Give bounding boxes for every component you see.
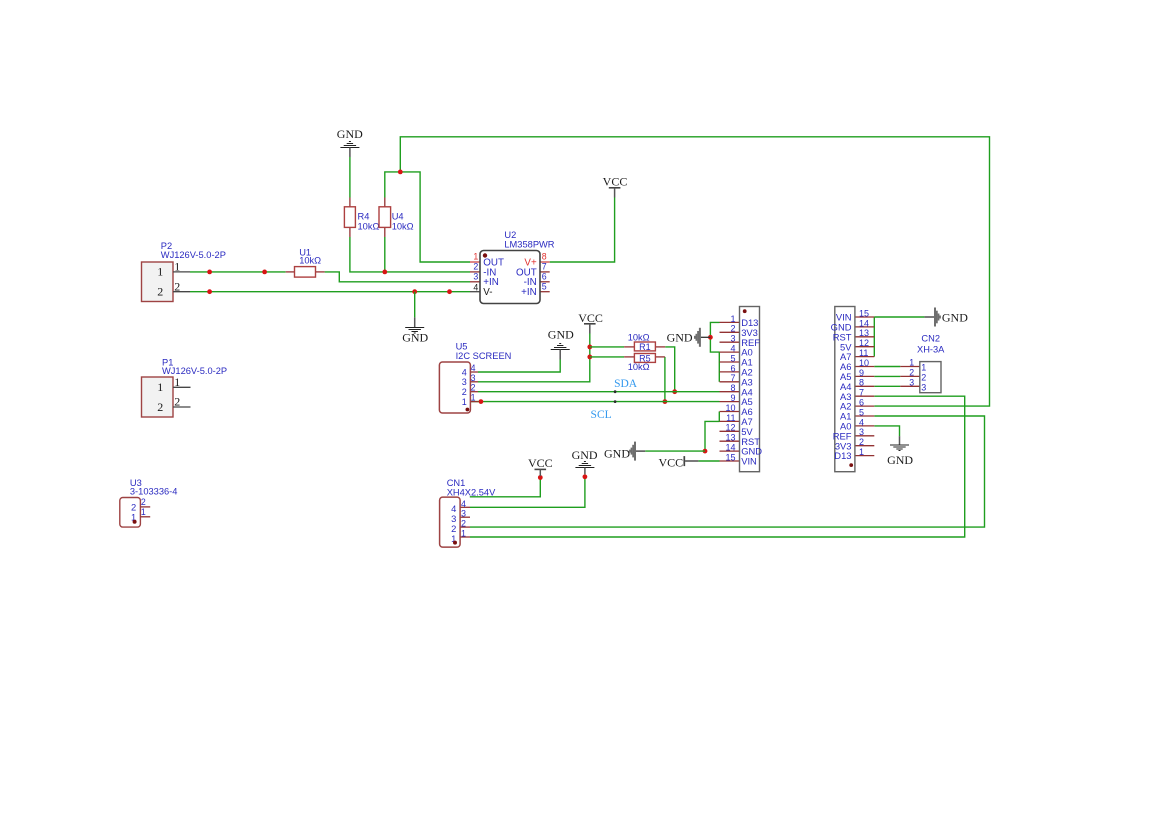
resistor U4 10kΩ [379, 198, 414, 238]
svg-text:1: 1 [471, 393, 476, 403]
svg-text:10kΩ: 10kΩ [628, 362, 650, 372]
ground GND flag (A0 right) [887, 436, 913, 467]
wire GND to R4 top [349, 157, 351, 198]
resistor R5 10kΩ [624, 353, 665, 372]
svg-text:1: 1 [141, 507, 146, 517]
power VCC flag (VIN pin15) [659, 455, 699, 469]
wire A7 to GND row [705, 421, 720, 451]
wire SCL net [465, 401, 720, 403]
ground GND flag (U5 pin4) [548, 328, 574, 360]
connector J-left Arduino header [720, 307, 763, 472]
junction [207, 289, 212, 294]
svg-text:3-103336-4: 3-103336-4 [130, 486, 178, 496]
svg-text:3: 3 [462, 377, 467, 387]
power VCC flag (U5/R1/R5) [578, 311, 603, 334]
svg-text:2: 2 [471, 383, 476, 393]
svg-text:GND: GND [572, 448, 598, 462]
svg-text:2: 2 [157, 285, 163, 299]
node SCL anchor [614, 400, 617, 403]
svg-text:3: 3 [461, 509, 466, 519]
svg-text:SCL: SCL [591, 409, 612, 421]
svg-text:14: 14 [859, 318, 869, 328]
svg-text:VCC: VCC [603, 174, 628, 188]
wire D13 to A0 [710, 322, 719, 352]
junction [587, 355, 592, 360]
svg-text:15: 15 [859, 308, 869, 318]
svg-text:10kΩ: 10kΩ [358, 221, 380, 231]
svg-text:2: 2 [909, 368, 914, 378]
junction [207, 270, 212, 275]
svg-text:3: 3 [471, 373, 476, 383]
svg-text:1: 1 [730, 314, 735, 324]
svg-text:R4: R4 [358, 211, 370, 221]
svg-text:13: 13 [725, 433, 735, 443]
wire to ground [414, 292, 416, 318]
svg-text:CN1: CN1 [447, 478, 466, 488]
ground GND flag (U2 V-) [402, 317, 428, 344]
ground GND flag (CN1 pin4) [572, 448, 598, 474]
svg-text:8: 8 [859, 378, 864, 388]
svg-text:9: 9 [730, 393, 735, 403]
connector U3 [120, 478, 178, 527]
wire A4 to CN2 pin3 [874, 385, 900, 387]
wire VCC dangling [470, 476, 541, 497]
svg-text:2: 2 [921, 373, 926, 383]
wire A3 to CN1 pin1 [470, 396, 965, 537]
wire A6 to A7 [718, 412, 720, 422]
svg-text:3: 3 [921, 383, 926, 393]
svg-text:1: 1 [462, 397, 467, 407]
svg-text:2: 2 [461, 519, 466, 529]
svg-text:4: 4 [473, 283, 478, 293]
op-amp U2 LM358PWR [470, 230, 555, 304]
svg-text:VCC: VCC [578, 311, 603, 325]
wire U2 V+ to VCC [550, 198, 615, 263]
svg-text:1: 1 [921, 363, 926, 373]
svg-text:12: 12 [859, 338, 869, 348]
junction [412, 289, 417, 294]
connector P2 [142, 241, 226, 301]
svg-text:3: 3 [473, 271, 478, 281]
svg-text:5: 5 [542, 281, 547, 291]
connector U5 I2C SCREEN [439, 342, 511, 414]
wire SDA net [478, 391, 720, 393]
svg-text:1: 1 [859, 447, 864, 457]
wire VIN pin15 to VCC flag [698, 460, 719, 462]
svg-text:VIN: VIN [741, 456, 757, 467]
resistor U1 10kΩ [286, 247, 325, 277]
connector CN1 XH4X2.54V [440, 478, 496, 547]
wire VCC to R1 [590, 346, 624, 348]
svg-text:XH4X2.54V: XH4X2.54V [447, 488, 496, 498]
svg-text:2: 2 [859, 437, 864, 447]
svg-text:4: 4 [859, 417, 864, 427]
svg-text:10: 10 [859, 358, 869, 368]
ground GND flag (top) [337, 127, 363, 157]
wire U1 to U2 pin 3 [325, 272, 470, 282]
svg-text:11: 11 [726, 413, 735, 423]
resistor R1 10kΩ [624, 332, 665, 352]
svg-text:14: 14 [725, 443, 735, 453]
svg-text:1: 1 [174, 375, 180, 389]
wire R5 to SCL [664, 357, 666, 402]
ground GND flag (D13/A0 net) [667, 328, 711, 347]
wire A1 to CN1 pin2 [470, 416, 985, 527]
svg-text:6: 6 [859, 398, 864, 408]
wire A0 to ground [874, 426, 899, 436]
junction [538, 475, 543, 480]
wire U4 top to junction [385, 172, 470, 262]
svg-text:2: 2 [174, 395, 180, 409]
junction [398, 170, 403, 175]
junction [672, 389, 677, 394]
svg-text:2: 2 [174, 279, 180, 293]
svg-text:11: 11 [859, 348, 868, 358]
wire junction up to top rail [400, 137, 989, 406]
power VCC flag (U2) [603, 174, 628, 197]
svg-text:4: 4 [462, 367, 467, 377]
wire P2 pin2 to U2 pin 4 [190, 291, 470, 293]
connector P1 [142, 358, 228, 418]
ground GND flag (VIN right) [924, 308, 968, 327]
svg-text:7: 7 [542, 262, 547, 272]
junction [587, 345, 592, 350]
svg-text:4: 4 [730, 344, 735, 354]
resistor R4 10kΩ [344, 198, 379, 238]
junction [708, 335, 713, 340]
svg-text:1: 1 [174, 260, 180, 274]
svg-text:GND: GND [667, 331, 693, 345]
svg-text:U5: U5 [456, 342, 468, 352]
wire U5 pin4 to ground [478, 360, 560, 373]
svg-text:R1: R1 [639, 342, 651, 352]
svg-text:LM358PWR: LM358PWR [504, 240, 554, 250]
wire R1 to SDA [665, 347, 675, 392]
svg-text:1: 1 [473, 252, 478, 262]
ground GND flag (pin14) [604, 442, 645, 461]
svg-text:10: 10 [725, 403, 735, 413]
svg-text:1: 1 [909, 358, 914, 368]
wire R4 bottom to U2 pin 2 [350, 237, 470, 272]
svg-text:D13: D13 [834, 450, 851, 461]
svg-text:2: 2 [473, 262, 478, 272]
svg-text:GND: GND [402, 331, 428, 345]
svg-text:GND: GND [942, 311, 968, 325]
wire VIN to A7 [873, 317, 875, 357]
svg-text:WJ126V-5.0-2P: WJ126V-5.0-2P [162, 366, 227, 376]
svg-text:3: 3 [730, 334, 735, 344]
svg-text:8: 8 [730, 383, 735, 393]
svg-text:3: 3 [909, 377, 914, 387]
wire A0 to A3 [718, 352, 720, 382]
svg-text:2: 2 [462, 387, 467, 397]
svg-text:1: 1 [461, 529, 466, 539]
svg-text:GND: GND [548, 328, 574, 342]
svg-text:10kΩ: 10kΩ [299, 255, 321, 265]
wire VIN to GND flag [874, 316, 924, 318]
svg-text:8: 8 [542, 252, 547, 262]
junction [663, 399, 668, 404]
svg-text:2: 2 [141, 497, 146, 507]
svg-text:2: 2 [157, 400, 163, 414]
svg-text:4: 4 [461, 499, 466, 509]
junction [479, 399, 484, 404]
svg-text:12: 12 [725, 423, 735, 433]
svg-text:1: 1 [157, 380, 163, 394]
junction [262, 270, 267, 275]
svg-text:CN2: CN2 [921, 334, 940, 344]
svg-text:GND: GND [337, 127, 363, 141]
power VCC flag (CN1 area) [528, 456, 553, 476]
junction [447, 289, 452, 294]
svg-text:SDA: SDA [614, 378, 638, 390]
wire VCC to U5 pin3 [478, 334, 590, 382]
connector J-right Arduino header [831, 307, 875, 472]
wire VCC to R5 [590, 356, 624, 358]
svg-text:U2: U2 [504, 230, 516, 240]
svg-text:5: 5 [859, 407, 864, 417]
junction [703, 449, 708, 454]
junction [382, 270, 387, 275]
svg-text:10kΩ: 10kΩ [392, 221, 414, 231]
svg-text:7: 7 [859, 388, 864, 398]
svg-text:V-: V- [483, 287, 492, 298]
svg-text:GND: GND [604, 447, 630, 461]
svg-text:13: 13 [859, 328, 869, 338]
svg-text:I2C SCREEN: I2C SCREEN [456, 351, 512, 361]
svg-text:VCC: VCC [659, 455, 684, 469]
svg-text:6: 6 [542, 271, 547, 281]
svg-text:U4: U4 [392, 211, 404, 221]
svg-text:1: 1 [157, 265, 163, 279]
svg-text:10kΩ: 10kΩ [628, 332, 650, 342]
wire U4 bottom [384, 237, 386, 272]
svg-text:WJ126V-5.0-2P: WJ126V-5.0-2P [161, 250, 226, 260]
wire CN1 pin4 to ground [470, 474, 585, 507]
svg-text:XH-3A: XH-3A [917, 344, 945, 354]
wire A6 to CN2 pin1 [874, 366, 900, 368]
svg-text:2: 2 [730, 324, 735, 334]
svg-text:15: 15 [725, 452, 735, 462]
svg-text:+IN: +IN [521, 287, 537, 298]
svg-text:9: 9 [859, 368, 864, 378]
junction [583, 474, 588, 479]
svg-text:5: 5 [730, 353, 735, 363]
wire GND pin14 [645, 450, 705, 452]
svg-text:6: 6 [730, 363, 735, 373]
connector CN2 XH-3A [900, 334, 945, 393]
svg-text:7: 7 [730, 373, 735, 383]
svg-text:GND: GND [887, 453, 913, 467]
svg-text:VCC: VCC [528, 456, 553, 470]
wire A5 to CN2 pin2 [874, 375, 900, 377]
svg-text:4: 4 [471, 363, 476, 373]
node SDA anchor [614, 390, 617, 393]
wire P2 pin1 to U1 [190, 271, 286, 273]
svg-text:3: 3 [859, 427, 864, 437]
